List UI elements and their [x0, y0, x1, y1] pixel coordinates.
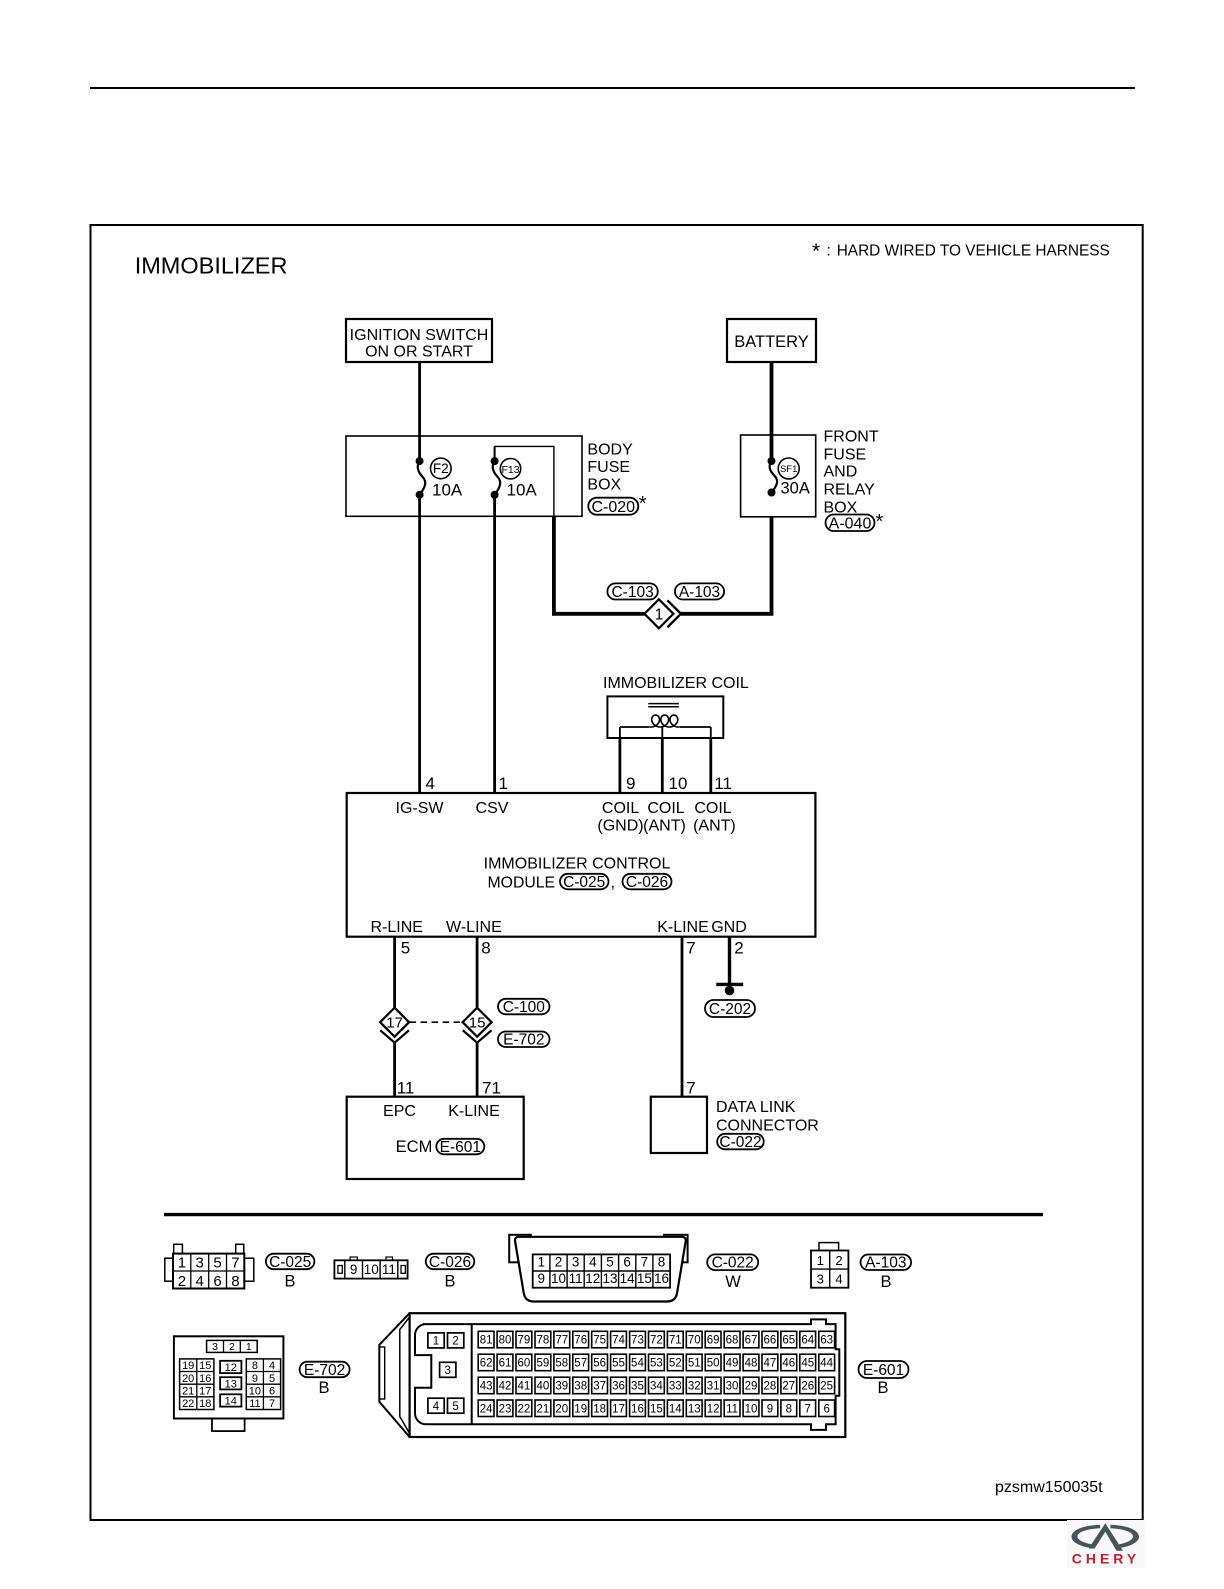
- svg-text:10A: 10A: [507, 481, 538, 500]
- connector label C-026 in module: [623, 874, 672, 890]
- svg-text:10: 10: [551, 1271, 566, 1286]
- svg-text:71: 71: [669, 1335, 682, 1347]
- svg-text:12: 12: [225, 1362, 237, 1374]
- svg-text:3: 3: [212, 1341, 218, 1353]
- wire fuse F2 to module pin 4 IG-SW: [418, 495, 421, 793]
- svg-text:IMMOBILIZER CONTROL: IMMOBILIZER CONTROL: [484, 856, 671, 873]
- svg-text:18: 18: [593, 1403, 606, 1415]
- connector label C-020: [588, 493, 647, 516]
- connector label E-601 in ECM: [436, 1139, 484, 1155]
- svg-text:9: 9: [626, 774, 635, 793]
- svg-text:IMMOBILIZER COIL: IMMOBILIZER COIL: [603, 675, 749, 692]
- svg-text:FUSE: FUSE: [824, 447, 867, 464]
- wire K-LINE to data link connector: [681, 937, 684, 1097]
- svg-text:22: 22: [518, 1403, 531, 1415]
- svg-text:72: 72: [650, 1335, 663, 1347]
- svg-text:IMMOBILIZER: IMMOBILIZER: [135, 253, 288, 279]
- svg-text:10A: 10A: [432, 481, 463, 500]
- svg-text:AND: AND: [824, 463, 858, 480]
- connector label C-103: [607, 583, 657, 599]
- connector view C-025: [165, 1244, 254, 1290]
- svg-text:27: 27: [782, 1381, 795, 1393]
- svg-text:7: 7: [269, 1398, 275, 1410]
- svg-text:MODULE: MODULE: [488, 875, 556, 892]
- svg-text:*: *: [876, 511, 884, 533]
- wire body fuse box to junction: [554, 516, 645, 614]
- svg-text:CSV: CSV: [476, 800, 509, 817]
- svg-text:C-103: C-103: [611, 584, 653, 601]
- svg-text:C-020: C-020: [592, 499, 636, 516]
- label front fuse and relay box: [824, 429, 879, 517]
- svg-text:E-601: E-601: [863, 1362, 904, 1379]
- svg-text:13: 13: [688, 1403, 701, 1415]
- module bottom pin numbers 5 8 7 2: [401, 939, 744, 958]
- svg-text:55: 55: [612, 1358, 625, 1370]
- svg-text:(ANT): (ANT): [643, 818, 686, 835]
- connector label C-025 view: [266, 1254, 315, 1291]
- connector 17 C-100 E-702: [380, 1008, 409, 1043]
- wire junction to front fuse box: [681, 517, 772, 614]
- svg-text:52: 52: [669, 1358, 682, 1370]
- connector label A-103 view: [861, 1255, 912, 1292]
- svg-text:20: 20: [555, 1403, 568, 1415]
- svg-text:9: 9: [538, 1271, 546, 1286]
- svg-text:E-601: E-601: [440, 1139, 481, 1156]
- svg-text:46: 46: [782, 1358, 795, 1370]
- svg-text:62: 62: [480, 1358, 493, 1370]
- svg-text:ON OR START: ON OR START: [365, 344, 473, 361]
- label data link connector: [716, 1099, 819, 1135]
- svg-text:47: 47: [764, 1358, 777, 1370]
- svg-text:7: 7: [805, 1403, 811, 1415]
- svg-text:K-LINE: K-LINE: [657, 919, 709, 936]
- svg-text:A-103: A-103: [679, 584, 720, 601]
- connector label E-702 view: [300, 1362, 350, 1397]
- svg-text:16: 16: [199, 1373, 211, 1385]
- svg-text:32: 32: [688, 1381, 701, 1393]
- immobilizer control module box: [347, 793, 816, 937]
- svg-text:B: B: [284, 1273, 295, 1291]
- svg-text:R-LINE: R-LINE: [370, 919, 422, 936]
- svg-text:COIL: COIL: [694, 800, 731, 817]
- separator rule above connector views: [164, 1213, 1043, 1216]
- note HARD WIRED TO VEHICLE HARNESS: [812, 240, 1110, 263]
- svg-text:16: 16: [654, 1271, 669, 1286]
- svg-text:BOX: BOX: [587, 476, 621, 493]
- wire ignition switch to fuse F2: [418, 362, 421, 461]
- svg-text:57: 57: [574, 1358, 587, 1370]
- svg-text:E-702: E-702: [503, 1032, 544, 1049]
- svg-text:69: 69: [707, 1335, 720, 1347]
- svg-text:4: 4: [589, 1255, 597, 1270]
- svg-text:20: 20: [182, 1373, 194, 1385]
- svg-text:36: 36: [612, 1381, 625, 1393]
- wire coil pin 11: [709, 738, 712, 793]
- connector view C-026: [334, 1257, 407, 1279]
- svg-text:16: 16: [631, 1403, 644, 1415]
- svg-text:7: 7: [231, 1255, 239, 1272]
- svg-text:41: 41: [518, 1381, 531, 1393]
- svg-text:6: 6: [623, 1255, 631, 1270]
- svg-text:3: 3: [817, 1271, 824, 1286]
- svg-text:56: 56: [593, 1358, 606, 1370]
- svg-text:3: 3: [444, 1365, 450, 1377]
- module bottom pin labels: [370, 919, 746, 936]
- connector label E-702 at junction: [498, 1032, 550, 1048]
- svg-text:B: B: [318, 1379, 329, 1397]
- svg-text:51: 51: [688, 1358, 701, 1370]
- data link connector box C-022: [651, 1097, 707, 1153]
- svg-text:F13: F13: [501, 464, 519, 476]
- svg-text:35: 35: [631, 1381, 644, 1393]
- svg-text:26: 26: [801, 1381, 814, 1393]
- svg-text:C-100: C-100: [503, 999, 546, 1016]
- svg-text:60: 60: [518, 1358, 531, 1370]
- svg-text:1: 1: [655, 606, 664, 623]
- svg-text:59: 59: [536, 1358, 549, 1370]
- module name label: [484, 856, 671, 892]
- svg-text:23: 23: [499, 1403, 512, 1415]
- svg-text:5: 5: [213, 1255, 221, 1272]
- svg-text:19: 19: [182, 1360, 194, 1372]
- svg-text:79: 79: [518, 1335, 531, 1347]
- svg-text:1: 1: [433, 1336, 439, 1348]
- svg-text:74: 74: [612, 1335, 625, 1347]
- svg-text:COIL: COIL: [647, 800, 684, 817]
- svg-text:53: 53: [650, 1358, 663, 1370]
- svg-text:1: 1: [246, 1341, 252, 1353]
- connector label C-202: [705, 1000, 755, 1017]
- svg-text:45: 45: [801, 1358, 814, 1370]
- svg-text:CONNECTOR: CONNECTOR: [716, 1118, 819, 1135]
- ignition switch box: [346, 319, 492, 362]
- svg-text:BATTERY: BATTERY: [734, 333, 809, 351]
- svg-text:DATA LINK: DATA LINK: [716, 1099, 796, 1116]
- connector label C-022 view: [707, 1254, 758, 1291]
- svg-text:30: 30: [726, 1381, 739, 1393]
- module top pin labels: [396, 800, 736, 835]
- svg-text:ECM: ECM: [396, 1138, 433, 1156]
- svg-text:1: 1: [499, 774, 508, 793]
- svg-text:58: 58: [555, 1358, 568, 1370]
- svg-text:C-022: C-022: [712, 1255, 754, 1272]
- svg-text:70: 70: [688, 1335, 701, 1347]
- connector 15 C-100 E-702: [463, 1008, 492, 1043]
- svg-text:EPC: EPC: [383, 1103, 416, 1120]
- svg-text:42: 42: [499, 1381, 512, 1393]
- svg-text:4: 4: [835, 1271, 842, 1286]
- svg-text:64: 64: [801, 1335, 814, 1347]
- svg-text:6: 6: [823, 1403, 829, 1415]
- svg-text:15: 15: [650, 1403, 663, 1415]
- svg-text:13: 13: [225, 1378, 237, 1390]
- svg-text:BODY: BODY: [587, 442, 633, 459]
- chery logo: [1067, 1520, 1145, 1568]
- svg-text:C-025: C-025: [269, 1254, 311, 1271]
- svg-text:E-702: E-702: [304, 1362, 345, 1379]
- svg-text:C-026: C-026: [626, 874, 668, 891]
- connector label C-022 at DLC: [717, 1134, 764, 1150]
- front fuse and relay box A-040: [741, 435, 816, 517]
- svg-text:76: 76: [574, 1335, 587, 1347]
- svg-text:*: *: [639, 493, 647, 515]
- svg-text:11: 11: [249, 1398, 260, 1410]
- svg-text:9: 9: [767, 1403, 773, 1415]
- svg-text:IG-SW: IG-SW: [396, 800, 445, 817]
- svg-text:4: 4: [433, 1401, 440, 1413]
- svg-text:8: 8: [481, 939, 490, 958]
- wire coil pin 10: [661, 738, 664, 793]
- svg-text:4: 4: [269, 1360, 275, 1372]
- svg-text:34: 34: [650, 1381, 663, 1393]
- svg-text:A-103: A-103: [865, 1255, 906, 1272]
- svg-text:48: 48: [745, 1358, 758, 1370]
- svg-text:6: 6: [269, 1385, 275, 1397]
- svg-text:10: 10: [745, 1403, 758, 1415]
- svg-text:7: 7: [686, 1079, 695, 1098]
- wire R-LINE to connector 17: [393, 937, 396, 1008]
- label body fuse box: [587, 442, 633, 494]
- svg-text:GND: GND: [711, 919, 747, 936]
- svg-text:13: 13: [602, 1271, 617, 1286]
- svg-text:2: 2: [229, 1341, 235, 1353]
- connector label C-026 view: [426, 1254, 475, 1291]
- svg-text:14: 14: [669, 1403, 682, 1415]
- svg-text:HARD WIRED TO VEHICLE HARNESS: HARD WIRED TO VEHICLE HARNESS: [837, 243, 1110, 260]
- svg-text:49: 49: [726, 1358, 739, 1370]
- svg-text:4: 4: [426, 774, 435, 793]
- svg-text:2: 2: [555, 1255, 563, 1270]
- wire connector 15 to ECM pin 71: [476, 1043, 479, 1097]
- svg-text:67: 67: [745, 1335, 758, 1347]
- svg-text:77: 77: [555, 1335, 568, 1347]
- svg-text:RELAY: RELAY: [824, 481, 876, 498]
- svg-text:2: 2: [452, 1336, 458, 1348]
- svg-text:6: 6: [213, 1273, 221, 1290]
- fuse F2 10A: [416, 457, 463, 499]
- svg-text:W-LINE: W-LINE: [446, 919, 502, 936]
- svg-text:75: 75: [593, 1335, 606, 1347]
- svg-text:9: 9: [252, 1373, 258, 1385]
- svg-text:28: 28: [764, 1381, 777, 1393]
- connector label C-025 in module: [560, 874, 609, 890]
- svg-text:(ANT): (ANT): [693, 818, 736, 835]
- junction connector 1 C-103 A-103: [644, 599, 681, 628]
- svg-text:66: 66: [764, 1335, 777, 1347]
- svg-text:COIL: COIL: [602, 800, 639, 817]
- svg-text:5: 5: [452, 1401, 458, 1413]
- svg-text:61: 61: [499, 1358, 512, 1370]
- svg-text:10: 10: [364, 1262, 379, 1277]
- svg-text:(GND): (GND): [597, 818, 643, 835]
- connector view C-022: [509, 1235, 687, 1302]
- svg-text:3: 3: [196, 1255, 204, 1272]
- svg-text:2: 2: [178, 1273, 186, 1290]
- connector view E-601: [379, 1313, 845, 1437]
- svg-text:50: 50: [707, 1358, 720, 1370]
- wire coil pin 9: [619, 738, 622, 793]
- svg-text:W: W: [725, 1273, 741, 1291]
- svg-text:17: 17: [386, 1015, 403, 1032]
- svg-text:C-025: C-025: [563, 874, 605, 891]
- svg-text:10: 10: [669, 774, 688, 793]
- connector label A-103: [675, 583, 724, 599]
- svg-text:5: 5: [269, 1373, 275, 1385]
- svg-text:C-022: C-022: [719, 1134, 761, 1151]
- svg-text:15: 15: [199, 1360, 211, 1372]
- svg-text:29: 29: [745, 1381, 758, 1393]
- svg-text:8: 8: [231, 1273, 239, 1290]
- svg-text:FRONT: FRONT: [824, 429, 879, 446]
- svg-text:12: 12: [707, 1403, 720, 1415]
- svg-text:18: 18: [199, 1398, 211, 1410]
- svg-text:11: 11: [569, 1271, 583, 1286]
- svg-text:33: 33: [669, 1381, 682, 1393]
- connector view A-103: [811, 1243, 848, 1288]
- svg-text:5: 5: [401, 939, 410, 958]
- svg-text:68: 68: [726, 1335, 739, 1347]
- connector label C-100: [498, 999, 550, 1015]
- svg-text:FUSE: FUSE: [587, 459, 630, 476]
- svg-text::: :: [827, 243, 831, 260]
- svg-text:80: 80: [499, 1335, 512, 1347]
- svg-text:C-202: C-202: [709, 1001, 751, 1018]
- svg-text:31: 31: [707, 1381, 720, 1393]
- wire fuse F13 to module pin 1 CSV: [493, 495, 496, 793]
- svg-text:21: 21: [536, 1403, 549, 1415]
- svg-text:11: 11: [726, 1403, 738, 1415]
- svg-text:30A: 30A: [781, 480, 810, 498]
- svg-text:73: 73: [631, 1335, 644, 1347]
- svg-text:15: 15: [469, 1015, 486, 1032]
- svg-text:*: *: [812, 240, 820, 263]
- svg-text:8: 8: [786, 1403, 792, 1415]
- module top pin numbers 4 1 9 10 11: [426, 774, 732, 793]
- svg-text:2: 2: [734, 939, 743, 958]
- svg-text:17: 17: [612, 1403, 625, 1415]
- svg-text:14: 14: [225, 1395, 237, 1407]
- svg-text:63: 63: [820, 1335, 833, 1347]
- fuse box internal divider: [495, 446, 554, 516]
- svg-text:pzsmw150035t: pzsmw150035t: [995, 1479, 1103, 1496]
- battery box: [727, 319, 816, 362]
- dashed link between connectors 17 and 15: [410, 1021, 462, 1023]
- svg-text:11: 11: [382, 1262, 396, 1277]
- immobilizer coil L1: [607, 696, 723, 738]
- ECM pin numbers 11 71: [397, 1079, 501, 1098]
- svg-text:12: 12: [585, 1271, 600, 1286]
- svg-text:5: 5: [606, 1255, 614, 1270]
- svg-text:1: 1: [178, 1255, 186, 1272]
- svg-text:38: 38: [574, 1381, 587, 1393]
- svg-text:25: 25: [820, 1381, 833, 1393]
- connector label A-040: [826, 511, 884, 533]
- svg-text:A-040: A-040: [829, 515, 872, 532]
- svg-text:B: B: [444, 1273, 455, 1291]
- svg-text:CHERY: CHERY: [1072, 1551, 1141, 1567]
- svg-text:4: 4: [196, 1273, 204, 1290]
- svg-text:39: 39: [555, 1381, 568, 1393]
- svg-text:14: 14: [620, 1271, 636, 1286]
- svg-text:SF1: SF1: [780, 464, 797, 475]
- svg-text:15: 15: [637, 1271, 652, 1286]
- svg-text:1: 1: [538, 1255, 546, 1270]
- svg-text:2: 2: [835, 1253, 842, 1268]
- svg-text:21: 21: [182, 1385, 194, 1397]
- svg-text:11: 11: [397, 1079, 415, 1098]
- svg-text:9: 9: [350, 1262, 358, 1277]
- svg-text:C-026: C-026: [429, 1254, 471, 1271]
- body fuse box C-020: [346, 436, 582, 516]
- svg-text:10: 10: [249, 1385, 261, 1397]
- ECM box E-601: [347, 1097, 524, 1179]
- connector view E-702: [174, 1336, 284, 1431]
- ground symbol C-202: [716, 984, 743, 995]
- svg-text:B: B: [880, 1273, 891, 1291]
- svg-text:24: 24: [480, 1403, 493, 1415]
- wire battery to fuse SF1: [770, 362, 774, 461]
- svg-text:8: 8: [658, 1255, 666, 1270]
- svg-text:11: 11: [714, 774, 732, 793]
- svg-text:7: 7: [641, 1255, 649, 1270]
- wire GND pin 2 to ground: [728, 937, 731, 985]
- svg-text:K-LINE: K-LINE: [448, 1103, 500, 1120]
- svg-text:71: 71: [482, 1079, 501, 1098]
- svg-text:44: 44: [820, 1358, 833, 1370]
- svg-text:78: 78: [536, 1335, 549, 1347]
- wire W-LINE to connector 15: [476, 937, 479, 1008]
- svg-text:37: 37: [593, 1381, 606, 1393]
- fuse SF1 30A: [768, 457, 810, 498]
- connector label E-601 view: [859, 1361, 909, 1397]
- svg-text:IGNITION SWITCH: IGNITION SWITCH: [350, 327, 489, 344]
- wire connector 17 to ECM pin 11: [393, 1043, 396, 1097]
- svg-text:3: 3: [572, 1255, 580, 1270]
- fuse F13 10A: [491, 446, 538, 499]
- svg-text:40: 40: [536, 1381, 549, 1393]
- svg-text:22: 22: [182, 1398, 194, 1410]
- svg-text:65: 65: [782, 1335, 795, 1347]
- svg-text:8: 8: [252, 1360, 258, 1372]
- svg-text:19: 19: [574, 1403, 587, 1415]
- svg-text:1: 1: [817, 1253, 824, 1268]
- svg-text:54: 54: [631, 1358, 644, 1370]
- svg-text:81: 81: [480, 1335, 493, 1347]
- svg-text:B: B: [877, 1379, 888, 1397]
- svg-text:43: 43: [480, 1381, 493, 1393]
- svg-text:7: 7: [686, 939, 695, 958]
- svg-text:17: 17: [199, 1385, 211, 1397]
- svg-text:,: ,: [611, 874, 616, 892]
- svg-text:F2: F2: [433, 461, 449, 476]
